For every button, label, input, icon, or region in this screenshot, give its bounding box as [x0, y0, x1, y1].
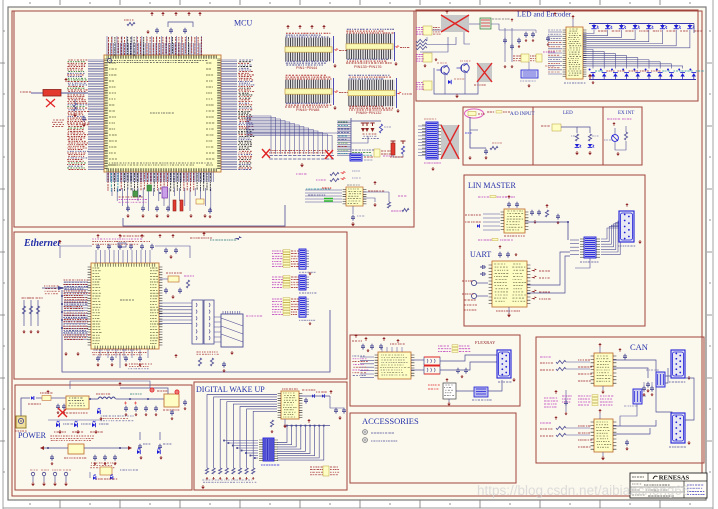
svg-text:RENESAS: RENESAS	[659, 475, 690, 482]
labels under transistors	[437, 62, 447, 64]
top LED row	[593, 24, 595, 26]
MCU U1 inner pin names top	[109, 61, 208, 63]
RJ45 J2	[221, 314, 243, 347]
resistor PU mid-right	[379, 124, 382, 133]
transistor Q2	[461, 64, 469, 72]
connector block above U2 area	[350, 154, 362, 161]
component U10 small flexray	[474, 387, 488, 397]
net labels MCU bottom	[107, 173, 109, 191]
connector PIN45~PIN88	[285, 80, 332, 103]
x-out block 1	[441, 15, 469, 32]
transformer T1	[192, 300, 203, 344]
svg-text:FLEXRAY: FLEXRAY	[475, 340, 496, 345]
MCU U1 pin1 marker	[108, 59, 112, 63]
capacitor row below MCU	[126, 206, 130, 212]
svg-text:EX INT: EX INT	[618, 111, 634, 116]
mid vertical wire pair	[504, 28, 506, 62]
power flag U15	[572, 17, 574, 19]
U3 pin ticks right	[159, 267, 162, 345]
resistor pack RP1	[272, 250, 284, 252]
gnd bottom left wakeup	[202, 485, 204, 487]
svg-text:DIGITAL WAKE UP: DIGITAL WAKE UP	[196, 385, 265, 394]
resistor R-topleft	[127, 22, 135, 25]
wires into U2	[305, 190, 342, 202]
oscillator Y1 cluster	[168, 276, 179, 282]
U3 pin ticks left	[88, 267, 91, 345]
green component G2 below MCU	[147, 185, 152, 191]
net labels on U2 wires	[306, 188, 330, 190]
title block text left	[632, 483, 641, 485]
wire stubs left CAN	[565, 390, 567, 412]
buzzer/crystal bottom power	[100, 467, 112, 475]
gnd left cluster	[74, 113, 76, 115]
wires encoder left web	[432, 29, 441, 31]
svg-text:CAN: CAN	[630, 342, 648, 352]
component block bottom right wakeup	[310, 466, 323, 468]
svg-text:POWER: POWER	[18, 431, 47, 440]
LIN IC U13	[504, 209, 525, 233]
connector PIN89~PIN132	[348, 80, 395, 106]
jumper labels row2	[478, 239, 492, 241]
title block small cell	[647, 473, 649, 481]
resistor pack RP5	[423, 53, 432, 62]
wire bundle U7 left staircase	[207, 395, 277, 469]
mid caps cluster2	[524, 32, 528, 38]
pot RV1 AD input	[465, 109, 484, 118]
labels left of U12	[578, 425, 591, 427]
power flag top right eth	[203, 234, 205, 236]
gnd loop encoder	[456, 94, 458, 96]
switch SW1 EXINT	[612, 135, 619, 142]
net labels bottom ethernet	[129, 364, 152, 366]
power flag left	[65, 80, 67, 82]
header J9 between boxes	[426, 122, 438, 159]
net labels far left column	[52, 120, 64, 127]
wire loop mid-right	[351, 136, 368, 143]
components top right wakeup	[304, 398, 308, 404]
input resistors U11	[540, 362, 553, 364]
power extra caps right rail	[154, 406, 158, 412]
DB9 J6 CAN2	[671, 413, 685, 443]
header J7 uart	[584, 237, 596, 258]
MCU U1 inner pin names right	[206, 62, 211, 64]
vertical bus mid-right	[350, 118, 352, 156]
gnd left mid	[83, 123, 85, 125]
power flag bottom LED row	[589, 77, 591, 80]
net labels under U3	[94, 349, 138, 351]
net labels left edge CAN	[540, 356, 551, 358]
wires U8 to T2	[411, 359, 424, 361]
gnd U9	[448, 402, 450, 404]
wires U8 left	[360, 357, 374, 377]
resistor pack CAN	[578, 395, 591, 397]
wire K1 up	[528, 62, 530, 70]
svg-text:Ethernet: Ethernet	[23, 238, 61, 249]
section box POWER	[15, 385, 192, 490]
IC U7 wakeup	[281, 391, 299, 419]
power bottom labels	[96, 478, 117, 480]
wires MCU below-package	[112, 188, 211, 211]
power net labels scatter	[100, 416, 133, 421]
ruler ticks right	[707, 31, 712, 472]
zener diode row	[56, 423, 59, 427]
cap below U2	[352, 206, 354, 214]
gnd DB9 uart	[639, 240, 641, 242]
gnd under U11	[602, 386, 604, 390]
x-out right of pads	[325, 150, 333, 159]
labels near chokes	[646, 369, 659, 371]
coil trio left	[416, 39, 427, 42]
loop wire encoder	[434, 68, 478, 94]
violet component below MCU	[162, 187, 168, 198]
resistors right of U3	[186, 280, 189, 288]
inductor L1	[90, 398, 98, 400]
crystal cluster below MCU	[196, 199, 204, 204]
extra labels CAN col	[562, 395, 572, 397]
net labels MCU left	[67, 60, 89, 170]
input RC row bottom left	[205, 468, 208, 474]
connector PIN133~PIN176	[346, 34, 393, 59]
test posts bottom left power	[31, 472, 34, 475]
IC U2 bottom-right of MCU	[346, 187, 363, 206]
wire bus MCU bottom	[107, 172, 213, 182]
power flags left cluster	[446, 12, 448, 14]
components above U8	[361, 344, 365, 350]
caps mid flexray	[456, 368, 460, 374]
cap inputs U14 left	[471, 280, 476, 285]
CAN transceiver U12	[594, 419, 613, 452]
net label ETH right	[246, 315, 262, 317]
power EXINT	[613, 124, 615, 126]
power mid junctions	[89, 398, 91, 400]
title block frame	[630, 473, 707, 498]
encoder IC U15	[566, 27, 583, 79]
ferrite bead top eth	[118, 243, 126, 247]
arrow net top eth	[234, 236, 242, 240]
wires T1 to RJ45	[214, 317, 221, 342]
wire down from header	[575, 258, 590, 268]
resistor pack RP2	[272, 276, 284, 278]
ruler ticks bottom	[30, 500, 690, 508]
resistor under U7	[270, 420, 273, 427]
gnd DB9 flexray	[513, 378, 515, 380]
power flags above MCU	[151, 14, 153, 16]
wire bottom bus ethernet	[62, 290, 330, 372]
svg-text:https://blog.csdn.net/aibianch: https://blog.csdn.net/aibiancheng66	[477, 483, 689, 498]
capacitor row above U3	[96, 244, 100, 250]
wire bus U3 right to transformer	[159, 303, 192, 323]
ruler ticks left	[0, 31, 5, 472]
gnd bottom left eth	[77, 352, 79, 354]
regulator U6 lower	[68, 444, 84, 454]
MCU U1 QFP package body	[104, 55, 221, 172]
res pair LED box	[575, 134, 578, 141]
right edge wire LED rows	[693, 24, 695, 34]
caps lower power row	[50, 455, 54, 461]
fuse F1	[36, 397, 42, 399]
regulator U5 right	[164, 394, 179, 407]
accessory item 2	[363, 438, 368, 443]
net labels U3 left	[63, 280, 90, 339]
section box MCU	[14, 11, 414, 227]
svg-text:MCU: MCU	[234, 19, 252, 28]
gnd AD	[469, 156, 471, 158]
title block rows	[630, 486, 684, 488]
gnd top cluster	[147, 30, 149, 32]
wires U12 to DB9	[613, 420, 656, 426]
power out flag	[150, 388, 154, 392]
wires to IC left	[548, 32, 562, 74]
power labels row1	[28, 403, 41, 405]
power flag mid wakeup	[308, 421, 310, 423]
title block right divider	[683, 481, 685, 498]
gnd under U7	[284, 419, 286, 424]
section box Ethernet	[14, 232, 347, 379]
wire bundle J3 right staircase	[277, 426, 287, 443]
capacitor left mid	[82, 116, 86, 122]
pullup resistors above U2	[296, 173, 307, 175]
labels under caps	[363, 133, 377, 135]
power flags above U3	[97, 236, 99, 238]
caps right wakeup	[334, 408, 338, 414]
svg-text:LED and Encoder: LED and Encoder	[517, 10, 572, 19]
input resistors U12	[540, 428, 552, 430]
choke L3 CAN2	[633, 389, 642, 404]
gnd respacks	[309, 272, 311, 273]
components top right of U3	[164, 248, 168, 254]
svg-text:LIN MASTER: LIN MASTER	[468, 181, 516, 190]
regulator U4	[66, 396, 89, 409]
power flag above U2	[374, 183, 376, 185]
green component G1 below MCU	[133, 191, 138, 197]
jumper block mid-right	[374, 149, 380, 157]
component K1 rotary	[521, 70, 538, 78]
x-out power	[58, 408, 67, 417]
net labels top eth	[120, 235, 144, 237]
net labels MCU right	[238, 60, 254, 170]
caps term CAN2	[625, 440, 629, 446]
divider AD/LED	[532, 107, 534, 165]
section box DIGITAL WAKE UP	[194, 382, 347, 490]
labels mid cluster	[543, 51, 555, 53]
gnd K1	[528, 84, 530, 86]
wire bus top right wakeup	[284, 425, 330, 427]
gnd RJ45	[231, 351, 233, 353]
net label left of R9	[20, 91, 31, 93]
resistor R10 left	[73, 103, 76, 111]
wire mid top	[499, 29, 536, 31]
caps above U14	[498, 252, 502, 258]
wires AD input	[470, 117, 486, 148]
wire long bottom loop	[123, 205, 285, 226]
power jack J1	[16, 416, 26, 428]
caps after L1	[124, 406, 128, 412]
labels EXINT box	[607, 118, 620, 120]
power flag U9	[446, 380, 448, 382]
wire mid right	[248, 132, 338, 134]
section box ACCESSORIES	[350, 413, 516, 483]
wires U11 to DB9	[613, 360, 656, 372]
MCU U1 part name	[150, 112, 174, 114]
net label TOP far	[190, 237, 212, 239]
caps right power	[183, 400, 187, 406]
power wire top loop	[70, 381, 150, 389]
tantalum cap pair 2	[370, 123, 374, 126]
led bus wires	[583, 30, 594, 34]
termination network labels	[438, 345, 449, 347]
U3 part label	[120, 299, 134, 301]
left entry labels flexray	[352, 340, 362, 342]
labels below U14	[496, 310, 520, 312]
wires left of J9	[418, 126, 426, 156]
transistor Q1	[441, 66, 449, 74]
wire top arc	[168, 22, 193, 27]
svg-text:ACCESSORIES: ACCESSORIES	[362, 416, 419, 426]
wires T2 to connector	[440, 355, 497, 361]
diode D2 schottky	[97, 410, 100, 414]
arrows right of U14	[531, 268, 537, 271]
resistor R9 red body left	[31, 92, 43, 94]
FlexRay IC U8	[378, 352, 411, 379]
wire bus U3 left	[64, 282, 88, 339]
net label AN0	[465, 132, 472, 134]
caps term CAN1	[646, 382, 650, 388]
components AD input top	[487, 111, 494, 113]
gnd U14	[508, 307, 510, 313]
power flag mid-left CAN	[555, 418, 557, 420]
LED pair LED box	[575, 144, 579, 147]
resistor pack RP7 right	[521, 54, 529, 62]
wires bottom loop flexray	[456, 390, 474, 392]
resistor EXINT	[624, 132, 627, 140]
optocoupler U9	[443, 383, 456, 399]
ruler ticks top	[30, 0, 690, 5]
power flag mid	[511, 20, 513, 22]
net labels U8 left	[352, 356, 365, 376]
encoder switch S1	[480, 18, 491, 29]
title block top divider	[630, 480, 707, 482]
junction dots U3 left	[61, 287, 63, 289]
wire top bus U2 area	[351, 120, 381, 122]
net label under x2	[474, 84, 486, 86]
x-out left of pads	[262, 149, 270, 158]
resistor pack RP6	[423, 81, 432, 90]
gnd under pads	[301, 163, 303, 165]
long vertical wires CAN	[656, 387, 672, 428]
wire fan stub left	[246, 116, 248, 136]
connector PIN1~PIN44	[285, 38, 332, 61]
labels above U7	[282, 388, 298, 390]
MCU U1 pin ticks top	[107, 55, 217, 58]
wire U2 right nets	[363, 191, 389, 193]
blue resistor right	[401, 141, 406, 144]
cap pair mid CAN	[642, 386, 646, 392]
resistor red vertical pair below MCU	[173, 200, 176, 211]
gnd row below MCU	[127, 214, 129, 216]
power flag bottom ethernet	[175, 356, 177, 358]
jumper labels LIN top	[478, 196, 491, 198]
x-out header block	[441, 125, 459, 159]
wires under U3 to bus	[100, 349, 148, 358]
wire bus MCU top	[107, 36, 202, 55]
wire fan to test pads	[247, 116, 332, 154]
wire U13 right	[525, 222, 568, 240]
U3 pin ticks bottom	[95, 346, 155, 349]
x-out mark left	[46, 99, 55, 107]
svg-text:LED: LED	[563, 111, 573, 116]
power labels under zeners	[50, 436, 94, 441]
DB9 J8 uart	[619, 211, 634, 242]
divider LED/EXINT	[602, 107, 604, 165]
capacitor C-top cluster	[155, 28, 159, 34]
red marks left of U9	[428, 384, 440, 386]
choke L2 CAN1	[656, 372, 665, 387]
left connector posts J-eth	[23, 300, 25, 326]
resistor pack RP4	[423, 26, 432, 35]
capacitor row below U3	[96, 356, 100, 362]
section box FLEXRAY	[350, 335, 520, 406]
MCU U1 pin ticks left	[104, 59, 107, 169]
labels left of IC	[548, 29, 561, 31]
svg-text:PIN1~PIN44: PIN1~PIN44	[296, 66, 317, 70]
arrow taps lower row	[40, 446, 132, 450]
accessory item 1	[363, 430, 368, 435]
UART IC U14	[492, 261, 527, 307]
wire stack mid-right MCU	[337, 121, 351, 155]
wires top eth web	[60, 246, 92, 258]
U3 inner pin names	[93, 267, 100, 269]
bottom LED row	[591, 73, 595, 76]
gnd below U2	[352, 222, 354, 224]
CAN transceiver U11	[594, 353, 613, 386]
wire zener bus	[48, 419, 100, 421]
wires above U8	[382, 347, 402, 352]
Ethernet PHY U3 body	[91, 263, 159, 349]
caps above U13	[507, 202, 511, 208]
wires header left	[570, 239, 579, 241]
diode D3 encoder	[448, 80, 451, 84]
svg-text:PIN89~PIN132: PIN89~PIN132	[356, 111, 381, 115]
svg-text:UART: UART	[470, 250, 491, 259]
green marks on U2 wires	[324, 199, 333, 202]
wire jack to diode	[21, 398, 30, 416]
labels under J9	[424, 162, 441, 164]
labels left-bottom U14	[464, 299, 476, 301]
gnd LED box	[576, 151, 578, 153]
connector J3 wakeup	[263, 438, 274, 461]
diode D1 power	[31, 396, 34, 400]
power flag top left eth	[59, 242, 61, 244]
wire bus MCU right	[221, 60, 237, 170]
labels left of U11	[578, 359, 590, 361]
power flags above PIN1 block	[287, 27, 289, 29]
wire bundle header to DB9	[601, 228, 619, 239]
power out flag2	[175, 390, 179, 394]
transformer T2	[424, 357, 440, 365]
MCU U1 pin ticks right	[217, 59, 220, 169]
wire vertical right power	[120, 388, 168, 394]
bottom LED row wire	[589, 79, 696, 81]
net label TD pair	[44, 286, 60, 294]
wires U14 right to header	[527, 252, 570, 285]
x-out block 2	[477, 63, 492, 82]
net labels U13 left	[465, 214, 481, 216]
red resistor vertical right	[391, 141, 396, 143]
wire loop right CAN	[685, 378, 694, 420]
U3 pin ticks top	[95, 263, 155, 266]
wires U13 left	[483, 214, 500, 230]
net labels above U3	[92, 238, 142, 240]
